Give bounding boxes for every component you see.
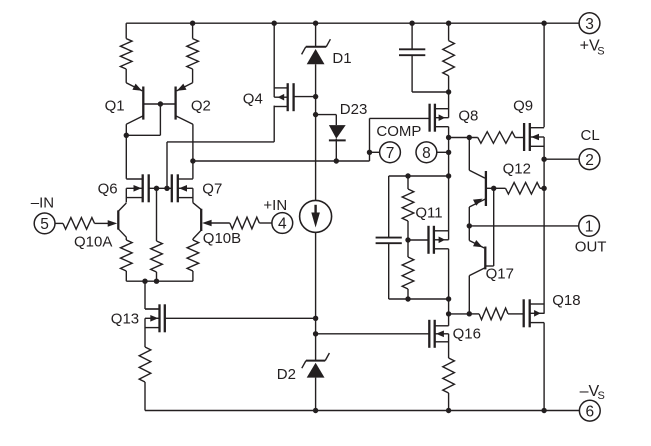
svg-text:Q10B: Q10B [203, 230, 241, 247]
wire Q8 source column [448, 127, 450, 240]
pin 1 OUT lead / wire output node [469, 225, 578, 227]
svg-text:Q7: Q7 [202, 181, 222, 198]
label Q16 [453, 325, 481, 342]
wire Q6-Q7 gate link [149, 187, 172, 189]
svg-text:Q12: Q12 [503, 161, 531, 178]
svg-text:Q18: Q18 [552, 292, 580, 309]
label Q1 [105, 97, 125, 114]
pin 8 lead [437, 151, 449, 153]
junction top rail / R-Q2 [190, 21, 195, 26]
junction Q12 collector tap [467, 135, 472, 140]
junction bottom rail / Q18 source [541, 408, 546, 413]
junction Q16 gate node [313, 331, 318, 336]
junction gate link / Q4 source wire [164, 186, 169, 191]
wire Q7 gate to Q4 source [167, 106, 274, 189]
junction tail / mid resistor [154, 279, 159, 284]
label Q8 [458, 108, 478, 125]
svg-text:Q11: Q11 [415, 205, 442, 222]
junction gate link / tail resistor [154, 186, 159, 191]
label +Vs [580, 38, 605, 58]
svg-text:Q4: Q4 [243, 90, 263, 107]
wire Q10B emitter lead [192, 239, 194, 240]
transistor Q11 [429, 226, 449, 254]
pin 5 -IN [34, 213, 55, 234]
label -Vs [580, 383, 605, 402]
junction Q1-Q2 bases [158, 101, 163, 106]
svg-text:6: 6 [585, 403, 594, 420]
resistor R-tail mid [151, 188, 163, 281]
transistor Q4 [274, 83, 293, 111]
svg-text:COMP: COMP [376, 123, 421, 140]
wire Q4 drain column [273, 23, 275, 97]
pin 8 COMP [416, 142, 437, 163]
pin 3 +Vs [579, 13, 600, 34]
svg-text:+IN: +IN [263, 197, 287, 214]
svg-text:7: 7 [386, 145, 395, 162]
svg-text:Q9: Q9 [513, 98, 533, 115]
resistor R-tail B [187, 240, 199, 281]
svg-text:Q13: Q13 [111, 310, 139, 327]
wire Q16 gate line to D2 node [316, 333, 430, 335]
transistor Q13 [145, 304, 165, 332]
wire Q11 network top line [389, 175, 449, 177]
capacitor C1 [399, 23, 449, 92]
resistor R-Q13 source [139, 347, 151, 411]
junction Q13 gate node [313, 316, 318, 321]
label Q18 [552, 292, 580, 309]
label CL [581, 127, 600, 144]
junction bottom rail / Q16 resistor [446, 408, 451, 413]
svg-text:Q6: Q6 [98, 181, 118, 198]
wire Q11 source to Q16 drain column [448, 249, 450, 326]
wire Q12-Q17 base link [485, 188, 493, 266]
transistor Q16 [429, 320, 448, 348]
resistor R upper (Q11 gate) [402, 176, 414, 240]
label Q12 [503, 161, 531, 178]
junction CL net / pin 2 [541, 157, 546, 162]
transistor Q10A [108, 203, 127, 237]
transistor Q2 [176, 83, 193, 124]
resistor R-Q1 (Q1 emitter load) [120, 23, 132, 83]
junction Q8 column / network top [446, 173, 451, 178]
wire Q1 collector column to Q6 drain [125, 124, 127, 179]
transistor Q1 [126, 83, 175, 124]
transistor Q6 [126, 174, 148, 202]
junction top rail / R-Q8 [446, 21, 451, 26]
wire Q18 source column [543, 323, 545, 411]
junction pin 8 / Q8 drain column [446, 150, 451, 155]
wire Q13 source column [144, 318, 146, 347]
label -IN [31, 195, 54, 212]
junction Q1 collector node [124, 133, 129, 138]
svg-text:Q16: Q16 [453, 325, 481, 342]
wire -Vs bottom supply rail [145, 410, 579, 412]
junction top rail / Q9 column [541, 21, 546, 26]
junction bottom rail / D2 [313, 408, 318, 413]
transistor Q8 [430, 104, 449, 132]
junction Q17 collector / Q18 gate line [467, 311, 472, 316]
svg-text:–V: –V [580, 383, 600, 400]
transistor Q7 [172, 174, 193, 202]
resistor R-Q2 (Q2 emitter load) [187, 23, 199, 83]
transistor Q10B [193, 203, 212, 239]
wire center column current source to D2 [315, 232, 317, 361]
label D2 [277, 366, 296, 383]
junction Q2 collector / COMP node [190, 158, 195, 163]
junction network top / R upper [405, 173, 410, 178]
label D1 [332, 50, 351, 67]
label Q2 [191, 97, 211, 114]
junction output node [467, 223, 472, 228]
svg-text:4: 4 [278, 216, 287, 233]
wire Q6 source column to Q10A [125, 188, 127, 202]
wire Q18 gate line [449, 313, 470, 315]
wire Q13 gate line to D2 node [165, 317, 316, 319]
svg-text:–IN: –IN [31, 195, 54, 212]
junction D23 branch node [313, 112, 318, 117]
junction COMP / D23 cathode [334, 158, 339, 163]
junction network bottom / column [446, 296, 451, 301]
svg-text:D23: D23 [340, 101, 368, 118]
svg-text:CL: CL [581, 127, 600, 144]
wire Q10A emitter lead [125, 237, 127, 240]
wire D23 branch [316, 115, 337, 126]
junction top rail / D1 column [313, 21, 318, 26]
wire Q13 drain column [145, 281, 160, 309]
svg-text:S: S [597, 46, 604, 58]
label Q4 [243, 90, 263, 107]
junction C1 / Q8 drain column [446, 89, 451, 94]
svg-text:Q1: Q1 [105, 97, 125, 114]
label OUT [575, 239, 607, 256]
pin 6 -Vs [579, 400, 600, 421]
wire Q9 drain column [543, 23, 545, 127]
pin 7 COMP [380, 142, 401, 163]
wire Q9 source column (CL net) [543, 137, 545, 314]
label Q11 [415, 205, 442, 222]
resistor R -IN [55, 218, 109, 230]
wire tail junction line [126, 280, 193, 282]
wire Q11 gate lead [408, 239, 429, 241]
diode D23 [329, 125, 346, 161]
svg-text:8: 8 [422, 145, 431, 162]
transistor Q12 [469, 138, 493, 226]
resistor R-Q16 source [443, 358, 455, 411]
label Q9 [513, 98, 533, 115]
junction top rail / C1 [409, 21, 414, 26]
svg-text:S: S [598, 390, 605, 402]
junction Q8 / R to Q9 gate [446, 135, 451, 140]
svg-text:3: 3 [585, 16, 594, 33]
wire Q4 gate lead [294, 96, 316, 98]
junction Q11 gate node [405, 237, 410, 242]
wire COMP to Q8 gate [370, 117, 430, 119]
resistor R lower (Q11 gate) [402, 240, 414, 299]
zener diode D1 [302, 39, 331, 64]
wire +Vs top supply rail [126, 22, 579, 24]
transistor Q9 [524, 123, 544, 151]
resistor R Q18 gate [469, 308, 523, 320]
resistor R-CL (Q12 base) [494, 183, 544, 195]
resistor R-tail A [121, 240, 133, 281]
pin 1 OUT [579, 216, 600, 237]
transistor Q17 [469, 226, 485, 314]
wire Q11 network bottom line [389, 298, 449, 300]
label Q10B [203, 230, 241, 247]
junction Q12 base node [491, 186, 496, 191]
junction network bottom / R lower [405, 296, 410, 301]
junction Q16 drain / Q18 gate line [446, 311, 451, 316]
junction Q4 gate node [313, 94, 318, 99]
svg-text:2: 2 [585, 152, 594, 169]
transistor Q18 [524, 299, 544, 327]
pin 2 CL [579, 149, 600, 170]
junction COMP / pin 7 lead [367, 150, 372, 155]
pin 4 +IN [272, 213, 293, 234]
wire Q1 base-collector tie [126, 104, 160, 135]
svg-text:Q10A: Q10A [74, 234, 112, 251]
label COMP [376, 123, 421, 140]
svg-text:D1: D1 [332, 50, 351, 67]
svg-text:D2: D2 [277, 366, 296, 383]
wire Q16 source column [448, 334, 450, 358]
svg-text:Q17: Q17 [486, 266, 514, 283]
wire D1 cathode lead [315, 23, 317, 47]
label Q17 [486, 266, 514, 283]
svg-text:Q2: Q2 [191, 97, 211, 114]
label Q13 [111, 310, 139, 327]
junction top rail / Q4 [272, 21, 277, 26]
label +IN [263, 197, 287, 214]
svg-text:5: 5 [40, 216, 49, 233]
wire center column D1 to current source [315, 64, 317, 201]
capacitor C2 [376, 176, 402, 299]
pin 2 CL lead [544, 158, 579, 160]
current source I1 [300, 200, 332, 232]
wire Q7 source column to Q10B [192, 188, 194, 202]
svg-text:OUT: OUT [575, 239, 607, 256]
resistor R Q8-Q9 gate [449, 132, 524, 144]
resistor R-Q8 drain [443, 23, 455, 118]
wire Q2 collector column [192, 124, 194, 179]
junction CL net / Q12 base resistor [541, 186, 546, 191]
label Q10A [74, 234, 112, 251]
wire COMP line (Q2 collector to D23/pin7) [193, 118, 370, 161]
zener diode D2 [302, 353, 330, 411]
junction tail / Q13 drain [142, 279, 147, 284]
svg-text:Q8: Q8 [458, 108, 478, 125]
svg-text:1: 1 [585, 219, 594, 236]
label D23 [340, 101, 368, 118]
resistor R +IN [211, 217, 272, 229]
label Q7 [202, 181, 222, 198]
pin 7 lead [370, 151, 380, 153]
label Q6 [98, 181, 118, 198]
